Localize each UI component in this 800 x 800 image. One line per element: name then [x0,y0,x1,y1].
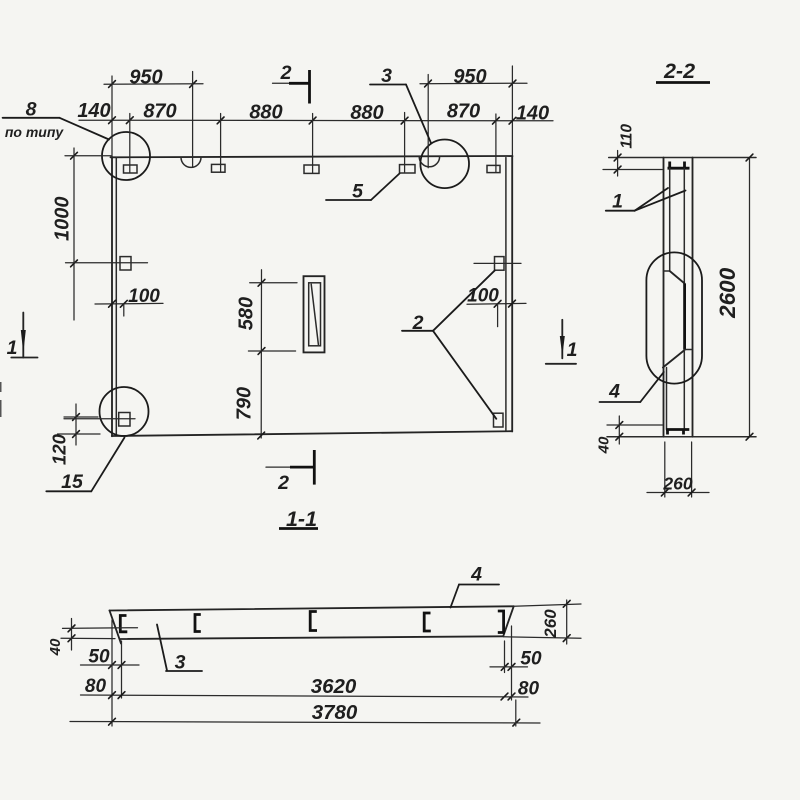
rebar bracket B5 mirrored [498,611,504,633]
label 8 leader [60,118,110,140]
svg-text:50: 50 [88,647,110,668]
tick chain x220.6 [217,117,224,124]
element 1 top bracket left stub [668,162,671,169]
svg-text:4: 4 [470,564,482,586]
label 3 s11 underline [166,670,202,672]
dimension 110 vertical line [617,151,619,177]
element 1 right inner line lower [683,350,685,430]
label 2 leader lower [433,331,496,419]
tick 100R b [509,300,516,307]
label 8 underline [3,117,60,119]
section 1-1 top edge [110,606,514,610]
section 1-1 bottom edge [121,636,504,639]
extension line loop right up [427,75,429,168]
svg-text:870: 870 [143,101,176,123]
extension line y638.3 [61,637,115,639]
svg-text:880: 880 [350,102,383,124]
tick 260 s22 b [688,489,695,496]
tick 120 a [73,414,80,421]
embed square right top [495,257,505,271]
extension line y425 [607,424,662,426]
svg-text:3620: 3620 [311,675,357,698]
section mark 1 right arrow [560,336,565,356]
section 2-2 right side [692,158,694,437]
section mark 1 left horizontal [11,357,37,359]
detail stadium outline [646,252,702,383]
tick chain x112 [109,117,116,124]
svg-text:260: 260 [662,474,692,494]
tick 260 s11 a [563,600,570,607]
stub below 100L [123,304,125,316]
tick 100L b [120,300,127,307]
svg-text:110: 110 [619,124,636,149]
svg-text:790: 790 [233,387,255,420]
svg-text:1: 1 [612,191,623,213]
section mark 2 bottom horizontal thick [290,466,314,469]
label 1 s22 leader a [635,188,668,211]
embed plate M3 top edge [304,165,319,173]
svg-text:50: 50 [520,649,542,670]
extension vertical x112 left [111,620,113,726]
svg-text:2: 2 [280,62,292,84]
tick chain x404.6 [401,117,408,124]
dimension 120 vertical line [75,404,77,445]
scan artifact marks left margin [0,382,2,417]
embed plate M5 top edge [487,165,500,172]
element 1 left inner line upper [669,168,671,271]
panel right edge inner line [505,158,507,431]
extension line embed4 [404,113,406,173]
embed square left top [120,257,131,270]
tick 1000 a [71,152,78,159]
label 15 leader [91,438,124,492]
tick 260 s22 a [661,489,668,496]
extension line embed3 [312,114,314,174]
dimension 950 right line [420,82,527,85]
title 1-1 underline [279,527,318,530]
svg-text:100: 100 [128,286,160,307]
extension line y282.8 [250,282,297,284]
tick 40 s11 b [68,635,75,642]
dimension 260 s11 vertical line [566,600,568,644]
label 1 s22 underline [606,210,635,212]
svg-text:140: 140 [516,103,549,125]
section mark 1 left vertical [22,313,24,358]
dimension 580-790 vertical line [260,270,262,438]
tick 950R b [509,80,516,87]
section mark 1 right vertical [561,320,563,359]
svg-text:140: 140 [77,100,110,122]
extension line through right top embed [474,262,521,264]
extension line embed1 [129,114,131,173]
extension vertical x121.5 left [121,641,123,698]
dimension 50 s11 right line [490,666,528,668]
element 1 top bracket bar [668,167,690,170]
dimension 2600 vertical line [749,158,751,437]
section mark 1 right horizontal [546,363,576,365]
splice foot upper [664,270,670,272]
lifting loop left [181,157,201,167]
label 2 leader upper [433,270,495,331]
extension line embed2 [220,114,222,172]
tick 3780 right [513,719,520,726]
svg-text:15: 15 [61,471,84,493]
panel left edge outer [111,157,113,436]
section mark 2 top vertical [308,70,311,104]
tick chain x130 [126,117,133,124]
section mark 1 left arrow [21,330,26,353]
extension 260 s22 left [664,442,666,497]
tick 40 s22 a [616,422,623,429]
tick 3620 x121.5 [118,692,125,699]
section 2-2 top edge with extensions [609,157,756,159]
extension 260 s11 bottom [504,637,582,638]
svg-text:950: 950 [129,67,162,89]
element 1 bottom bracket right stub [682,430,685,435]
tick 260 s11 b [563,635,570,642]
extension line y351 [248,350,295,352]
tick 2600 a [746,154,753,161]
element 1 top bracket right stub [683,162,686,169]
section 1-1 left slant end [110,611,122,644]
svg-text:1: 1 [567,339,578,361]
tick 3620 x112 [109,692,116,699]
svg-text:40: 40 [47,638,64,656]
embed plate M4 top edge [400,165,416,173]
tick 790 b [258,432,265,439]
extension line y628.4 [63,627,138,630]
tick 950R a [425,80,432,87]
tick 50R b [508,664,515,671]
detail circle node 3 [420,140,469,189]
label 3 underline [370,84,406,86]
tick 100R a [494,300,501,307]
extension line y155.7 [65,155,111,157]
extension line y169.5 [603,169,662,171]
label 5 leader [371,174,400,201]
tick 2600 b [746,433,753,440]
extension line y434 [58,433,101,435]
dimension 1000 vertical line [73,148,75,320]
svg-text:120: 120 [49,433,70,465]
tick 50L b [118,662,125,669]
panel bottom edge [112,431,512,436]
svg-text:2-2: 2-2 [663,59,695,83]
title 2-2 underline [656,81,710,84]
svg-text:580: 580 [235,297,257,330]
element 1 left inner line lower [666,368,668,430]
extension line through left top embed [66,262,148,264]
panel top edge [111,156,513,157]
extension vertical x515.5 right [515,700,517,726]
svg-text:80: 80 [85,676,107,697]
tick 1000 b [71,260,78,267]
extension line embed5 [495,114,497,172]
svg-text:1000: 1000 [52,196,74,241]
tick 110 a [614,154,621,161]
svg-text:260: 260 [541,609,560,639]
svg-text:950: 950 [453,66,486,88]
element 1 bottom bracket left stub [666,430,669,435]
label 3 s11 leader [157,625,167,671]
embed square right bottom [494,413,504,427]
tick 580 a [258,279,265,286]
dimension 50 s11 left line [81,664,140,666]
element 1 bottom bracket bar [666,428,689,431]
svg-text:880: 880 [249,102,282,124]
dimension 3780 line [70,722,540,724]
central opening diagonal [311,284,318,344]
label 4 s11 underline [459,584,499,586]
tick chain x495.9 [493,117,500,124]
section 2-2 left side [663,158,665,437]
extension vertical x511.5 right [511,626,513,700]
extension 260 s11 top [514,604,581,606]
svg-text:40: 40 [596,436,613,454]
section mark 2 bottom horizontal thin [266,466,291,468]
tick 3620 x511.5 [508,693,515,700]
dimension chain line 140-870-880-880-870-140 [79,119,553,122]
lifting loop right [419,157,439,167]
tick 3620 x504.5 [501,693,508,700]
svg-text:2: 2 [277,472,289,494]
section 1-1 right slant end [503,606,514,636]
label 3 leader [406,85,431,144]
tick 50R a [501,664,508,671]
dimension 260 s22 line [647,492,709,494]
extension line loop left up [192,72,194,168]
tick 3780 left [109,718,116,725]
splice foot lower [685,349,692,351]
splice diagonal upper [670,271,685,284]
svg-text:по типу: по типу [5,124,65,140]
svg-text:2600: 2600 [715,267,740,319]
svg-text:3780: 3780 [312,701,358,724]
tick 950L a [109,81,116,88]
label 5 underline [326,199,371,201]
dimension 3620 line [81,695,529,697]
rebar bracket B4 [424,613,431,631]
label 4 s22 underline [600,401,641,403]
tick 40 s22 b [616,433,623,440]
tick chain x512.5 [509,117,516,124]
tick 50L a [109,662,116,669]
svg-text:100: 100 [467,286,499,307]
tick 120 b [73,431,80,438]
central opening outer rectangle [304,276,325,352]
tick 40 s11 a [68,625,75,632]
panel left edge inner line [115,157,117,436]
splice diagonal lower [663,350,685,368]
dimension 100 left line [95,302,163,305]
rebar bracket B3 [310,612,317,631]
label 4 s22 leader [640,372,664,402]
tick 100L a [109,300,116,307]
label 4 s11 leader [451,585,460,608]
extension line panel left corner up [111,76,113,156]
extension line panel right corner up [511,66,513,155]
label 1 s22 leader b [635,191,686,211]
tick 110 b [614,166,621,173]
rebar bracket B1 [120,616,127,632]
dimension 950 left line [104,83,203,86]
dimension 40 s11 vertical line [71,619,73,651]
stub below 100R [497,304,499,327]
svg-text:870: 870 [447,101,480,123]
section mark 2 top horizontal thick [289,82,309,85]
panel right edge outer [511,156,513,431]
svg-text:1: 1 [7,337,18,359]
extension 260 s22 right [691,442,693,497]
extension line through left bottom embed [64,418,135,420]
svg-text:4: 4 [608,381,620,403]
label 2 underline [402,330,433,332]
embed square left bottom [119,413,130,427]
embed plate M1 top edge [124,165,138,173]
section mark 2 bottom vertical [313,450,316,485]
dimension 40 s22 vertical line [618,416,620,444]
dimension 100 right line [467,302,526,305]
rebar bracket B2 [195,615,201,632]
tick chain x312.6 [309,117,316,124]
detail circle top-left [102,132,150,180]
splice thick middle bar [683,284,686,350]
section 2-2 bottom edge with extensions [607,436,756,438]
extension line y417 [64,416,98,418]
central opening inner rectangle [309,283,321,346]
extension vertical x504.5 right [504,641,506,673]
tick 580 b [258,348,265,355]
embed plate M2 top edge [212,164,226,172]
svg-text:80: 80 [518,679,540,700]
element 1 right inner line upper [683,168,685,283]
label 15 underline [46,490,91,492]
tick 950L b [190,81,197,88]
section mark 2 top horizontal thin [273,82,291,84]
detail circle bottom-left [100,387,149,436]
